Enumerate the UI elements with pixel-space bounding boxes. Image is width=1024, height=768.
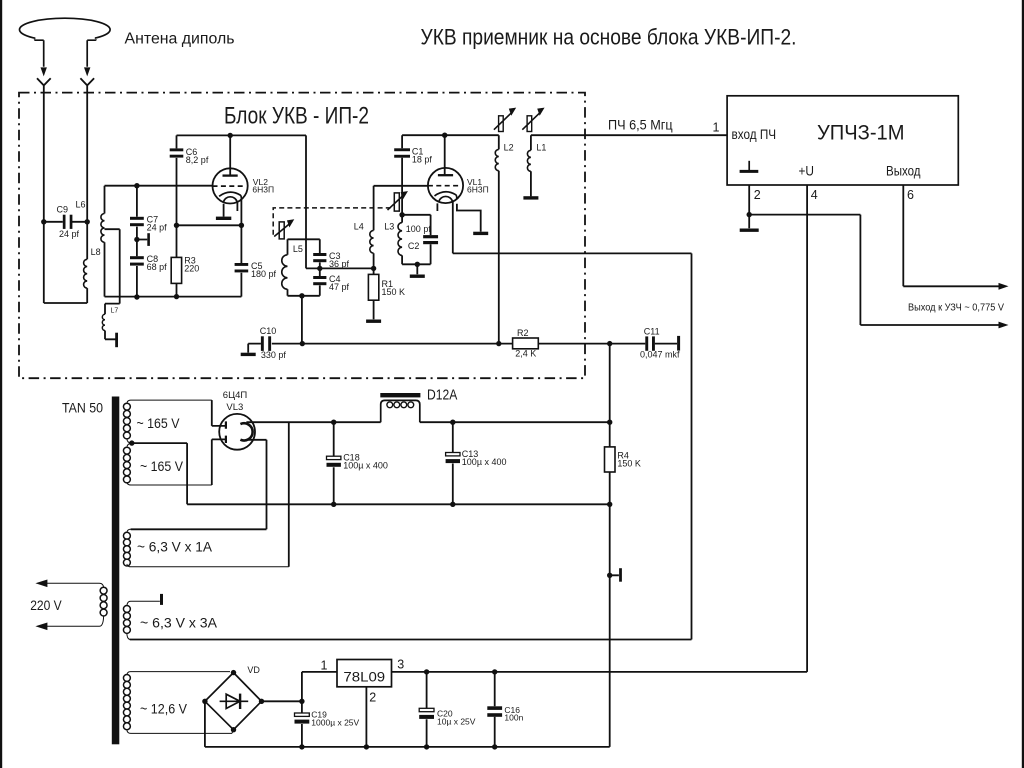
svg-text:330 pf: 330 pf	[261, 350, 287, 360]
svg-text:~ 6,3 V x 3A: ~ 6,3 V x 3A	[140, 615, 217, 630]
svg-text:L3: L3	[384, 222, 394, 232]
svg-text:100µ x 400: 100µ x 400	[343, 460, 388, 470]
svg-text:VL3: VL3	[226, 402, 243, 413]
svg-text:+U: +U	[799, 163, 815, 178]
svg-text:L6: L6	[76, 200, 86, 210]
svg-text:10µ x 25V: 10µ x 25V	[437, 717, 476, 727]
svg-text:VD: VD	[247, 665, 260, 675]
svg-text:~ 12,6 V: ~ 12,6 V	[140, 702, 187, 717]
svg-text:2: 2	[754, 188, 761, 202]
svg-text:Блок УКВ - ИП-2: Блок УКВ - ИП-2	[224, 103, 369, 130]
svg-text:D12A: D12A	[427, 387, 458, 403]
svg-text:2,4 K: 2,4 K	[515, 349, 536, 359]
svg-text:TAN 50: TAN 50	[62, 401, 103, 416]
svg-text:4: 4	[811, 188, 818, 202]
svg-text:1: 1	[713, 121, 720, 135]
svg-text:24 pf: 24 pf	[147, 223, 168, 233]
svg-text:8,2 pf: 8,2 pf	[186, 155, 209, 165]
svg-text:C11: C11	[644, 326, 660, 336]
svg-text:18 pf: 18 pf	[412, 154, 433, 164]
svg-text:~ 165 V: ~ 165 V	[137, 416, 180, 431]
svg-text:180 pf: 180 pf	[251, 269, 277, 279]
svg-text:~ 6,3 V x 1A: ~ 6,3 V x 1A	[137, 539, 212, 554]
svg-text:L4: L4	[354, 222, 364, 232]
svg-text:Выход: Выход	[886, 163, 921, 178]
svg-text:6: 6	[907, 188, 914, 202]
svg-text:220: 220	[184, 264, 199, 274]
svg-text:Антена диполь: Антена диполь	[125, 30, 235, 47]
svg-text:1000µ x 25V: 1000µ x 25V	[311, 717, 359, 727]
svg-text:ПЧ 6,5 Мгц: ПЧ 6,5 Мгц	[608, 118, 673, 133]
svg-text:3: 3	[397, 658, 404, 672]
svg-text:УПЧЗ-1М: УПЧЗ-1М	[817, 121, 905, 145]
svg-text:0,047 mkf: 0,047 mkf	[640, 349, 680, 359]
svg-text:C9: C9	[57, 204, 69, 214]
svg-text:24 pf: 24 pf	[59, 229, 80, 239]
svg-text:150 K: 150 K	[617, 459, 641, 469]
svg-text:~ 165 V: ~ 165 V	[140, 459, 183, 474]
svg-text:L5: L5	[293, 244, 303, 254]
svg-text:220 V: 220 V	[30, 598, 62, 613]
svg-text:6Н3П: 6Н3П	[467, 184, 489, 194]
svg-text:6Ц4П: 6Ц4П	[223, 390, 248, 401]
svg-text:150 K: 150 K	[382, 287, 406, 297]
svg-text:6Н3П: 6Н3П	[252, 185, 274, 195]
svg-text:47 pf: 47 pf	[329, 282, 350, 292]
svg-text:L2: L2	[504, 143, 514, 153]
svg-text:R2: R2	[517, 328, 529, 338]
svg-text:100µ x 400: 100µ x 400	[462, 457, 507, 467]
svg-text:L8: L8	[91, 247, 101, 257]
svg-text:1: 1	[321, 658, 328, 672]
svg-text:100n: 100n	[504, 713, 523, 723]
svg-text:Выход к УЗЧ ~ 0,775 V: Выход к УЗЧ ~ 0,775 V	[908, 303, 1004, 314]
svg-text:C2: C2	[408, 241, 420, 251]
svg-text:68 pf: 68 pf	[147, 262, 168, 272]
svg-text:2: 2	[369, 691, 376, 705]
svg-text:УКВ приемник на основе блока У: УКВ приемник на основе блока УКВ-ИП-2.	[421, 25, 797, 50]
svg-text:100 pf: 100 pf	[406, 224, 432, 234]
svg-text:L7: L7	[111, 308, 119, 315]
svg-text:36 pf: 36 pf	[329, 259, 350, 269]
svg-text:вход ПЧ: вход ПЧ	[732, 127, 777, 142]
svg-text:L1: L1	[536, 143, 546, 153]
svg-text:C10: C10	[260, 326, 277, 336]
svg-text:78L09: 78L09	[343, 669, 385, 684]
